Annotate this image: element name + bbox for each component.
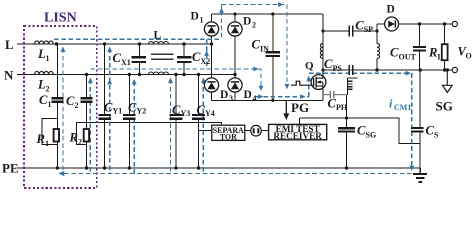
wire iCM1 vertical [411,73,413,169]
svg-text:PG: PG [291,100,309,115]
resistor R2 [84,129,89,142]
capacitor C1 [51,98,63,102]
wire CM companion CY4 [202,80,204,174]
wire CM companion C1 [62,49,64,174]
wire Q source lead [322,89,324,101]
wire CIN vertical [272,14,274,100]
svg-text:PH: PH [336,103,348,112]
svg-text:Y3: Y3 [181,109,191,118]
svg-text:L: L [438,53,443,62]
svg-text:1: 1 [45,139,49,148]
heatsink comb [347,78,357,95]
wire CY2 vertical [128,75,130,169]
svg-text:R: R [69,131,78,145]
wire CM path drop D1 side [206,39,208,69]
svg-text:3: 3 [229,94,233,103]
svg-text:D: D [243,16,251,28]
arrow CM up at CY1 below N [107,79,112,84]
transformer primary winding [320,44,323,59]
wire CX2 vertical [183,44,185,75]
diode D2 [228,22,242,36]
wire CM path rise at Q [308,76,310,97]
svg-text:2: 2 [78,138,82,147]
wire primary descender [322,14,324,76]
capacitor CY2 [123,115,136,119]
wire CM companion CY3 [170,80,172,174]
capacitor CY4 [192,115,205,119]
wire CM companion CY2 [133,82,135,174]
wire CM path under rail horizontal [256,96,309,98]
arrow CM right above N [253,67,258,72]
svg-text:R: R [36,132,45,146]
svg-text:SG: SG [366,131,377,140]
arrow CM up at CY4 [201,78,206,83]
svg-text:D: D [387,4,395,16]
wire CM path up through D1 [221,5,223,38]
wire CM bottom return rail [64,173,412,175]
arrow CM up at CY2 [132,79,137,84]
wire CX1 vertical [139,44,141,75]
svg-text:N: N [4,68,14,83]
resistor R1 [54,129,59,142]
wire CM path down right of bridge [286,5,288,84]
svg-text:SG: SG [436,99,453,114]
diode D4 [228,78,242,92]
wire C2 branch vertical [86,75,88,130]
wire separator left lead [199,130,212,132]
wire bridge bottom rail [212,99,324,101]
wire CY3 vertical [175,75,177,169]
wire RL vertical [444,24,446,70]
arrow CM right under rail [300,94,305,99]
wire COUT vertical [419,24,421,70]
svg-text:2: 2 [252,21,256,30]
PG arrow [283,100,289,120]
EMI receiver box [269,124,327,139]
svg-text:Y1: Y1 [113,107,123,116]
svg-text:CM1: CM1 [394,103,411,112]
wire secondary lower [376,59,378,71]
diode D1 [204,22,218,36]
capacitor CSP [349,26,353,37]
wire CS vertical [419,70,421,168]
wire N line [17,74,235,76]
wire bridge right rail [234,14,236,100]
capacitor C2 [81,98,93,102]
capacitor CS [411,128,424,131]
CM choke L bottom winding [149,72,169,75]
svg-text:IN: IN [260,45,269,54]
wire CM path above N horizontal [90,69,261,86]
SG triangle [443,70,453,93]
wire CY4 vertical [198,75,200,169]
svg-text:X2: X2 [201,57,211,66]
wire secondary riser [376,24,378,44]
resistor RL [442,44,448,60]
svg-text:OUT: OUT [399,53,417,62]
svg-text:Q: Q [305,60,314,72]
diode D3 [204,78,218,92]
svg-text:2: 2 [75,101,79,110]
svg-text:RECEIVER: RECEIVER [273,131,322,141]
wire L line [17,43,212,45]
capacitor CSG [338,128,355,131]
wire receiver chassis rail [300,118,421,143]
svg-text:S: S [434,131,439,140]
gate drive pulse symbol [291,81,311,85]
wire CPS horizontal [323,69,377,71]
svg-text:Y2: Y2 [137,107,147,116]
arrow CM up at Q gate [306,76,311,81]
svg-text:4: 4 [253,94,257,103]
wire R2 node to separator top [87,122,222,125]
svg-text:PS: PS [333,64,343,73]
wire CM path secondary horizontal [309,72,411,74]
capacitor CPS [349,65,353,75]
wire CM path top horizontal above L [54,38,220,40]
svg-text:TOR: TOR [220,133,237,142]
wire separator to connector [245,130,251,132]
arrow CM down into bottom rail [409,166,414,171]
svg-text:R: R [428,46,437,60]
wire connector to receiver [261,130,268,132]
arrow CM left on bottom rail [58,171,64,176]
arrow CM up at CY1 top [107,47,112,52]
CM choke L top winding [149,42,169,45]
svg-text:D: D [244,89,252,101]
svg-text:X1: X1 [121,58,131,67]
wire C1 branch vertical [56,44,58,129]
arrow CM up at CY3 [168,78,173,83]
separator box [212,125,245,140]
arrow CM down at bridge exit [259,86,264,91]
capacitor COUT [413,47,426,51]
wire CSP horizontal [323,30,377,32]
ground symbol [413,168,427,182]
svg-text:1: 1 [200,16,204,25]
transformer secondary winding [377,44,380,59]
wire CM companion C2 [89,80,91,174]
arrow CM right to CS [406,71,411,76]
svg-text:PE: PE [2,161,19,176]
svg-text:L: L [5,37,14,52]
wire CM path bridge top horizontal [222,4,288,6]
arrow CM down right of bridge [285,84,290,89]
wire CSG vertical [346,95,348,168]
capacitor CPH (gray parasitic) [323,91,347,98]
wire R2 parallel loop [77,122,87,168]
VO- terminal [452,67,457,72]
svg-text:D: D [220,89,228,101]
svg-text:1: 1 [46,54,50,63]
wire PE line [17,167,420,169]
connector circle [251,125,262,136]
CM choke core bars [151,54,174,59]
inductor L1 [35,41,54,44]
wire CM companion CY1 [109,49,111,174]
wire R1 parallel loop [42,119,57,169]
capacitor CY1 [98,115,111,119]
wire output bottom [350,69,452,71]
svg-text:1: 1 [48,100,52,109]
wire CY1 vertical [104,44,106,168]
inductor L2 [35,71,54,74]
LISN dotted box [24,26,97,188]
svg-text:SP: SP [364,25,373,34]
svg-text:L: L [154,30,162,42]
svg-text:LISN: LISN [44,11,77,26]
arrow CM up on D1 drop [204,51,209,56]
wire bridge top rail [212,13,324,15]
capacitor CIN [266,52,281,56]
transistor Q1 mosfet [311,75,326,90]
wire bridge left rail [211,14,213,100]
VO+ terminal [452,21,457,26]
svg-text:O: O [466,52,472,61]
svg-text:D: D [191,11,199,23]
svg-text:Y4: Y4 [205,109,215,118]
arrow CM up at C2 [88,78,93,83]
diode D output [385,17,399,31]
arrow CM up top of D1 riser [219,8,224,13]
capacitor CY3 [170,115,183,119]
arrow CM up at C1 [61,47,66,52]
wire output top [377,23,452,25]
capacitor CX2 [177,57,192,62]
capacitor CX1 [132,57,147,62]
arrow CM right on bridge top [278,2,283,7]
